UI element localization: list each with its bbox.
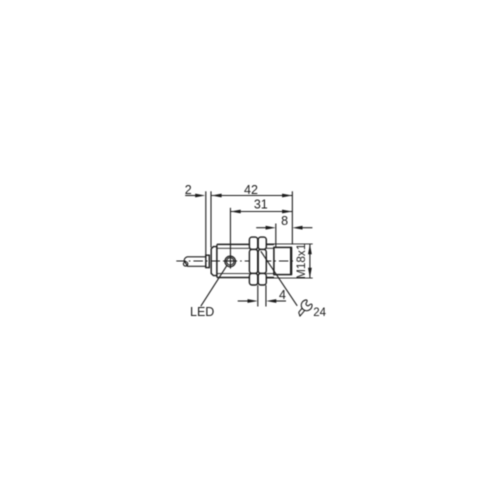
thread root line top (barrel) <box>217 247 250 249</box>
svg-text:LED: LED <box>190 305 214 319</box>
svg-text:M18x1: M18x1 <box>294 244 308 279</box>
svg-text:8: 8 <box>281 214 288 228</box>
dimension 4: extension line left <box>257 285 259 306</box>
LED outer circle <box>225 256 236 267</box>
cable break loop <box>183 262 187 266</box>
cable <box>184 257 206 267</box>
thread stub root lines <box>266 247 274 249</box>
dimension 31: extension line through LED <box>229 208 231 269</box>
front sleeve <box>274 247 292 274</box>
svg-text:4: 4 <box>279 288 286 302</box>
centerline dash across LED <box>225 260 235 262</box>
thread stub OD between nut and sleeve <box>266 243 274 245</box>
M18 extension line bottom <box>267 277 313 279</box>
cable gland <box>206 255 210 267</box>
LED inner circle <box>227 258 234 265</box>
dimension line 2 (tail + arrow) <box>185 195 196 197</box>
dimension 2: extension line left <box>205 191 207 254</box>
dimension line 8 (right arrow) <box>302 227 312 229</box>
dimension 4: extension line right <box>265 285 267 306</box>
dimension 42/31/8: extension line right (face) <box>291 191 293 244</box>
barrel outline <box>217 243 250 245</box>
sensing face thick edge <box>290 247 292 274</box>
dimension line 8 (left arrow) <box>256 227 266 229</box>
dimension line 4 (right arrow) <box>276 300 287 302</box>
leader line wrench <box>261 251 297 306</box>
dimension line 4 (left arrow) <box>238 300 249 302</box>
dimension 8: extension line left <box>275 224 277 248</box>
leader line LED <box>201 265 227 306</box>
svg-text:31: 31 <box>254 198 268 212</box>
dimension line 42 <box>212 195 293 197</box>
mounting nut 1 (left) <box>249 237 257 285</box>
wrench symbol <box>294 299 313 319</box>
M18 extension line top <box>267 243 313 245</box>
dimension line 31 <box>231 211 293 213</box>
dimension line M18 (vertical) <box>309 244 311 278</box>
svg-text:42: 42 <box>244 183 258 197</box>
svg-text:24: 24 <box>313 307 326 319</box>
body left end cap <box>211 247 217 276</box>
dimension 2/42: extension line shared (body left) <box>210 191 212 247</box>
svg-text:2: 2 <box>185 183 192 197</box>
mounting nut 2 (right) <box>258 237 266 285</box>
centerline axis <box>176 260 296 262</box>
thread root line bottom (barrel) <box>217 273 250 275</box>
